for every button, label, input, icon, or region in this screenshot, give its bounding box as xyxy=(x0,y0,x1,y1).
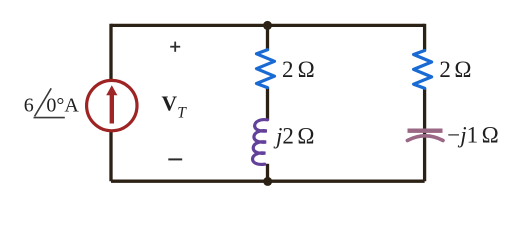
node junction dot top xyxy=(263,21,272,30)
current source I1 circle xyxy=(87,80,137,130)
resistor 2ohm right zigzag xyxy=(414,51,432,89)
resistor 2ohm middle zigzag xyxy=(257,50,275,88)
wire middle branch between R and L xyxy=(266,88,269,121)
svg-text:Ω: Ω xyxy=(297,124,314,149)
label minus sign xyxy=(168,158,182,160)
svg-text:2: 2 xyxy=(282,57,294,82)
wire middle branch upper xyxy=(266,24,269,50)
wire top horizontal xyxy=(111,24,425,27)
svg-text:Ω: Ω xyxy=(482,123,499,148)
node junction dot bottom xyxy=(263,177,272,186)
svg-text:T: T xyxy=(177,104,187,121)
wire middle branch lower xyxy=(266,164,269,181)
label plus sign xyxy=(170,42,180,52)
svg-text:Ω: Ω xyxy=(298,57,315,82)
wire right branch upper xyxy=(423,24,426,51)
svg-text:2: 2 xyxy=(439,57,451,82)
svg-text:j2: j2 xyxy=(273,124,294,149)
svg-text:V: V xyxy=(162,91,178,115)
svg-text:−j1: −j1 xyxy=(447,123,478,148)
wire right branch lower (passes behind capacitor plates) xyxy=(423,88,426,181)
svg-text:0°A: 0°A xyxy=(46,94,79,116)
wire left vertical xyxy=(109,24,112,181)
wire bottom horizontal xyxy=(111,180,425,183)
svg-text:6: 6 xyxy=(24,94,34,116)
capacitor -j1ohm top plate xyxy=(408,129,443,133)
label VT xyxy=(162,91,188,121)
label source value 6 angle 0 A xyxy=(24,88,80,117)
current source I1 arrow xyxy=(106,85,117,123)
svg-text:Ω: Ω xyxy=(454,57,471,82)
inductor j2ohm coil xyxy=(253,120,268,165)
capacitor -j1ohm curved bottom plate xyxy=(407,136,443,141)
